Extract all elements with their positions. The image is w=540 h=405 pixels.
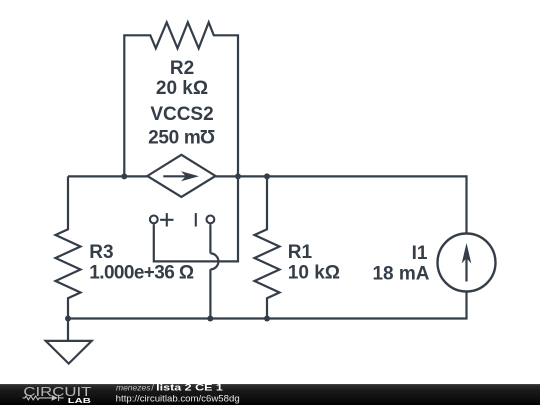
svg-text:menezes: menezes	[116, 382, 151, 392]
svg-text:R1: R1	[288, 242, 313, 263]
svg-text:18 mA: 18 mA	[372, 264, 429, 285]
svg-text:250 m: 250 m	[148, 128, 200, 149]
svg-text:1.000e+36 Ω: 1.000e+36 Ω	[89, 263, 194, 284]
svg-text:VCCS2: VCCS2	[150, 104, 213, 125]
svg-text:20 kΩ: 20 kΩ	[156, 78, 208, 99]
svg-text:http://circuitlab.com/c6w58dg: http://circuitlab.com/c6w58dg	[116, 393, 240, 404]
svg-text:I1: I1	[412, 243, 428, 264]
svg-text:10 kΩ: 10 kΩ	[288, 263, 340, 284]
svg-text:Ω: Ω	[200, 125, 215, 146]
svg-text:lista 2 CE 1: lista 2 CE 1	[156, 382, 224, 393]
svg-text:LAB: LAB	[68, 396, 92, 405]
svg-text:/: /	[151, 382, 154, 393]
svg-text:R3: R3	[89, 242, 113, 263]
svg-text:R2: R2	[170, 58, 194, 79]
